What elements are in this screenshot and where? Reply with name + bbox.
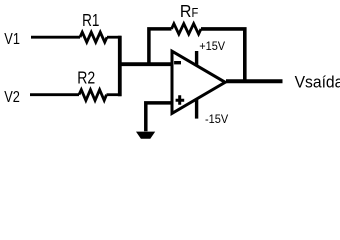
svg-text:R2: R2 — [77, 68, 95, 88]
svg-text:V2: V2 — [4, 89, 20, 107]
wire — [107, 36, 121, 39]
wire — [195, 51, 198, 66]
op-amp minus input marking — [174, 61, 181, 64]
resistor R2 — [79, 90, 107, 101]
label +15V — [199, 41, 225, 53]
label RF — [180, 1, 198, 21]
label R1 — [82, 11, 99, 30]
label R2 — [77, 68, 95, 88]
svg-text:Vsaída: Vsaída — [295, 73, 340, 91]
svg-text:V1: V1 — [4, 31, 20, 49]
op-amp U1 — [172, 51, 225, 113]
svg-text:+15V: +15V — [199, 41, 225, 53]
wire — [195, 100, 198, 119]
node summing junction — [118, 36, 122, 96]
wire — [120, 62, 174, 66]
wire — [149, 29, 172, 66]
ground — [136, 132, 155, 139]
wire — [201, 29, 245, 83]
svg-text:RF: RF — [180, 1, 198, 21]
label Vsaida — [295, 73, 340, 91]
wire — [226, 79, 283, 83]
wire — [30, 93, 79, 96]
svg-text:R1: R1 — [82, 11, 99, 30]
svg-text:-15V: -15V — [205, 114, 229, 126]
label V2 — [4, 89, 20, 107]
op-amp plus input marking — [176, 95, 185, 104]
wire — [146, 103, 174, 131]
wire — [31, 36, 80, 39]
label V1 — [4, 31, 20, 49]
resistor RF — [172, 24, 202, 34]
label -15V — [205, 114, 229, 126]
wire — [107, 93, 122, 96]
resistor R1 — [80, 32, 107, 42]
